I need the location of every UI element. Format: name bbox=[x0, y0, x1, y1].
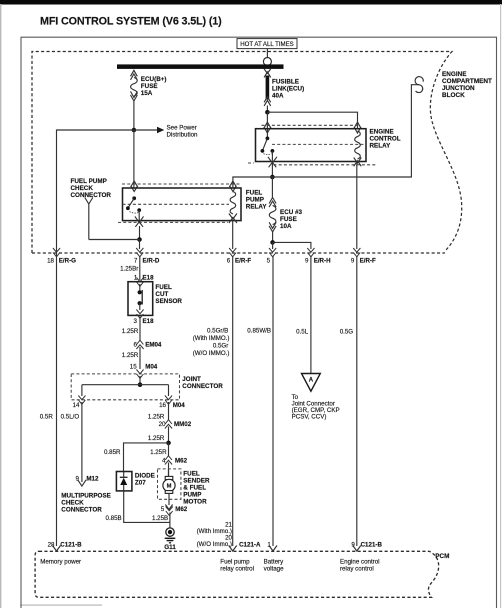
svg-text:Distribution: Distribution bbox=[167, 132, 199, 139]
svg-text:14: 14 bbox=[73, 402, 80, 409]
svg-text:E/R-H: E/R-H bbox=[314, 257, 331, 264]
sensor: fuel cut sensor box bbox=[128, 282, 153, 316]
wire: node right and up to junction block squiggle bbox=[272, 85, 419, 177]
wire: ECR output node down to fuse bbox=[271, 177, 273, 198]
pin 3 E18 at sensor bottom bbox=[136, 310, 143, 319]
pin: relay switch input at rail bbox=[264, 122, 271, 133]
svg-text:JOINT: JOINT bbox=[182, 376, 201, 383]
svg-text:CONTROL: CONTROL bbox=[370, 136, 401, 143]
svg-text:15: 15 bbox=[130, 363, 137, 370]
squiggle: wire continues into junction block bbox=[415, 77, 423, 93]
svg-text:PUMP: PUMP bbox=[183, 492, 201, 499]
svg-text:PCM: PCM bbox=[435, 553, 449, 560]
engine compartment junction block dashed outline bbox=[32, 52, 462, 254]
wire: node down into relay switch bbox=[266, 112, 268, 138]
wire: ECR coil output down to row bbox=[356, 161, 358, 249]
svg-text:ENGINE: ENGINE bbox=[442, 71, 467, 78]
pin 28 C121-B bbox=[53, 546, 61, 552]
svg-text:6: 6 bbox=[227, 257, 231, 264]
pin: fp relay coil input bbox=[229, 181, 236, 192]
svg-text:BLOCK: BLOCK bbox=[442, 92, 465, 99]
HOT AT ALL TIMES box bbox=[237, 39, 297, 49]
fuel pump relay switch bbox=[132, 196, 136, 200]
svg-text:SENSOR: SENSOR bbox=[155, 298, 182, 305]
svg-text:5: 5 bbox=[267, 257, 271, 264]
svg-text:Z07: Z07 bbox=[135, 480, 146, 487]
svg-text:(W/O IMMO.): (W/O IMMO.) bbox=[193, 350, 230, 357]
svg-text:0.5Gr: 0.5Gr bbox=[213, 342, 228, 349]
svg-text:HOT AT ALL TIMES: HOT AT ALL TIMES bbox=[240, 41, 294, 48]
node: power distribution junction bbox=[132, 128, 137, 133]
svg-text:FUSE: FUSE bbox=[280, 216, 297, 223]
svg-text:0.85B: 0.85B bbox=[106, 515, 122, 522]
pin: relay coil input at rail bbox=[354, 122, 361, 133]
svg-text:6: 6 bbox=[134, 342, 138, 349]
wire: node down to row pin 5 bbox=[272, 242, 274, 249]
svg-text:0.5R: 0.5R bbox=[40, 414, 54, 421]
svg-text:1: 1 bbox=[267, 542, 271, 549]
svg-text:COMPARTMENT: COMPARTMENT bbox=[442, 78, 492, 85]
svg-text:CUT: CUT bbox=[155, 291, 168, 298]
svg-text:1.25B: 1.25B bbox=[152, 515, 168, 522]
svg-text:A: A bbox=[309, 378, 314, 384]
node: relay output junction bbox=[270, 175, 275, 180]
dashed rail above fuel pump relay bbox=[122, 183, 242, 185]
pin 7 E/R-D bbox=[136, 248, 143, 257]
svg-text:CHECK: CHECK bbox=[61, 500, 84, 507]
connector 5 M62 bbox=[165, 505, 172, 510]
svg-text:18: 18 bbox=[47, 257, 54, 264]
fuse ECU(B+) 15A symbol bbox=[131, 70, 138, 101]
wire: junction down to fuel pump relay bbox=[133, 130, 135, 188]
svg-text:PCSV, CCV): PCSV, CCV) bbox=[292, 413, 327, 420]
wire: fp switch output to box bottom bbox=[138, 210, 140, 221]
svg-text:40A: 40A bbox=[272, 92, 284, 99]
svg-text:M04: M04 bbox=[173, 402, 186, 409]
wire: node to relay coil branch bbox=[267, 112, 357, 128]
svg-text:C121-B: C121-B bbox=[361, 542, 383, 549]
pin 18 E/R-G bbox=[53, 248, 60, 257]
wire: 9 E/R-H down to triangle A bbox=[310, 256, 312, 374]
wire: branch left to diode bbox=[124, 443, 169, 472]
arrow: see power distribution bbox=[134, 129, 157, 131]
node: diode branch junction bbox=[166, 441, 171, 446]
fuel pump check connector bbox=[85, 198, 93, 240]
wire: node to fuel pump relay coil bbox=[233, 177, 273, 188]
pin 6 E/R-F bbox=[229, 248, 236, 257]
svg-text:E/R-F: E/R-F bbox=[360, 257, 376, 264]
dashed rail inside fuel pump relay bbox=[123, 203, 230, 205]
svg-text:See Power: See Power bbox=[167, 125, 197, 132]
svg-text:M62: M62 bbox=[175, 457, 188, 464]
diode symbol bbox=[120, 476, 128, 478]
svg-text:0.85W/B: 0.85W/B bbox=[247, 327, 271, 334]
fuse ECU#3 10A symbol bbox=[269, 198, 276, 232]
engine control relay switch bbox=[266, 137, 270, 141]
svg-text:LINK(ECU): LINK(ECU) bbox=[272, 85, 304, 92]
PCM dashed box bbox=[35, 551, 439, 597]
svg-text:E18: E18 bbox=[143, 274, 155, 281]
engine control relay coil bbox=[355, 131, 361, 159]
connector ring on bus bar bbox=[263, 58, 271, 66]
svg-text:9: 9 bbox=[351, 542, 355, 549]
connector 4 M62 bbox=[165, 456, 172, 465]
svg-text:ECU #3: ECU #3 bbox=[280, 209, 303, 216]
junction block bottom dashed rail / connector row bbox=[32, 252, 445, 254]
pin 9 E/R-F bbox=[353, 248, 360, 257]
wire: fuse to power junction bbox=[133, 101, 135, 130]
svg-text:FUEL: FUEL bbox=[183, 471, 200, 478]
svg-text:FUEL PUMP: FUEL PUMP bbox=[71, 178, 107, 185]
svg-text:9: 9 bbox=[75, 475, 79, 482]
svg-text:E18: E18 bbox=[143, 318, 155, 325]
svg-text:FUSIBLE: FUSIBLE bbox=[272, 78, 299, 85]
svg-text:M62: M62 bbox=[175, 506, 188, 513]
svg-text:7: 7 bbox=[134, 257, 138, 264]
motor M symbol bbox=[168, 469, 170, 477]
svg-text:ECU(B+): ECU(B+) bbox=[141, 76, 167, 83]
dashed rail below fuel pump relay bbox=[118, 221, 228, 223]
svg-text:ENGINE: ENGINE bbox=[370, 129, 394, 136]
svg-text:MOTOR: MOTOR bbox=[183, 499, 207, 506]
svg-text:Battery: Battery bbox=[264, 559, 285, 566]
ground G11 bbox=[166, 528, 174, 536]
wire: motor to ground bbox=[169, 513, 171, 529]
svg-text:1.25R: 1.25R bbox=[150, 449, 167, 456]
svg-text:CHECK: CHECK bbox=[71, 185, 94, 192]
svg-text:0.5L: 0.5L bbox=[296, 329, 309, 336]
fuel cut sensor internals bbox=[139, 284, 141, 292]
connector 6 EM04 bbox=[136, 340, 143, 349]
dashed rail below engine control relay bbox=[274, 164, 377, 166]
svg-text:MM02: MM02 bbox=[174, 421, 192, 428]
wire: 6 E/R-F down to C121-A bbox=[232, 256, 234, 546]
wire: fp coil down to row bbox=[232, 221, 234, 249]
svg-text:MULTIPURPOSE: MULTIPURPOSE bbox=[61, 493, 111, 500]
svg-text:EM04: EM04 bbox=[145, 342, 162, 349]
svg-text:9: 9 bbox=[305, 257, 309, 264]
wire: 0.5L/O down to M12 bbox=[81, 402, 83, 482]
svg-text:1.25Br: 1.25Br bbox=[120, 266, 138, 273]
svg-text:G11: G11 bbox=[164, 544, 176, 551]
svg-text:1.25R: 1.25R bbox=[148, 414, 165, 421]
wire: 5 down to battery voltage pin 1 bbox=[272, 256, 274, 546]
svg-text:E/R-D: E/R-D bbox=[143, 257, 160, 264]
pin: fp coil bottom bbox=[229, 214, 237, 224]
svg-text:10A: 10A bbox=[280, 223, 292, 230]
svg-text:relay control: relay control bbox=[220, 566, 254, 573]
svg-text:E/R-G: E/R-G bbox=[59, 257, 76, 264]
svg-text:0.85R: 0.85R bbox=[104, 449, 121, 456]
svg-text:1.25R: 1.25R bbox=[122, 352, 139, 359]
svg-text:28: 28 bbox=[48, 542, 55, 549]
pin: fp switch output at box bottom bbox=[135, 216, 144, 226]
arrow: to joint connector triangle A bbox=[302, 374, 321, 392]
wire: 1.25R from pin16 down bbox=[168, 402, 170, 420]
pin: relay switch output at box bottom bbox=[268, 157, 277, 168]
joint connector internal bus bbox=[82, 384, 169, 386]
fuel pump relay coil bbox=[230, 192, 236, 214]
svg-text:1.25R: 1.25R bbox=[122, 328, 139, 335]
pin: coil bottom at box edge bbox=[354, 158, 362, 167]
svg-text:relay control: relay control bbox=[340, 566, 374, 573]
svg-text:Fuel pump: Fuel pump bbox=[220, 559, 250, 566]
svg-text:E/R-F: E/R-F bbox=[235, 257, 251, 264]
pin: fp relay switch input bbox=[131, 181, 138, 192]
svg-text:MFI CONTROL SYSTEM (V6 3.5L) (: MFI CONTROL SYSTEM (V6 3.5L) (1) bbox=[40, 16, 222, 28]
svg-text:Engine control: Engine control bbox=[340, 559, 380, 566]
svg-text:4: 4 bbox=[162, 457, 166, 464]
wire: bus right down to pin 16 bbox=[168, 385, 170, 396]
svg-text:M04: M04 bbox=[145, 363, 158, 370]
svg-text:M12: M12 bbox=[86, 475, 99, 482]
svg-text:20: 20 bbox=[159, 421, 166, 428]
svg-text:16: 16 bbox=[159, 402, 166, 409]
pin 1 battery bbox=[269, 546, 277, 552]
page top black bar bbox=[0, 0, 502, 5]
svg-text:FUEL: FUEL bbox=[155, 284, 172, 291]
node: joint connector bus junction bbox=[138, 382, 143, 387]
svg-text:3: 3 bbox=[134, 318, 138, 325]
fusible link ECU 40A bbox=[264, 69, 271, 106]
wire: switch output to box bottom bbox=[271, 151, 273, 161]
wire: junction left to 0.5R drop bbox=[57, 130, 134, 253]
svg-text:RELAY: RELAY bbox=[370, 143, 392, 150]
wire: fp switch output down to check-connector node bbox=[139, 226, 141, 240]
svg-text:JUNCTION: JUNCTION bbox=[442, 85, 475, 92]
wire: fusible link to node B+ bbox=[266, 106, 268, 113]
wire: bus left down to pin 14 bbox=[81, 385, 83, 396]
wire: hot label to bus bar bbox=[266, 49, 268, 58]
svg-text:C121-A: C121-A bbox=[239, 542, 261, 549]
wire: 9 E/R-F down to engine control relay control bbox=[356, 256, 358, 546]
wire: diode return to ground bus bbox=[124, 491, 170, 523]
svg-text:CONNECTOR: CONNECTOR bbox=[71, 192, 112, 199]
svg-text:CONNECTOR: CONNECTOR bbox=[182, 383, 223, 390]
svg-text:FUSE: FUSE bbox=[141, 83, 158, 90]
svg-text:RELAY: RELAY bbox=[246, 204, 268, 211]
dashed rail inside engine control relay bbox=[272, 143, 364, 145]
svg-text:0.5G: 0.5G bbox=[340, 329, 354, 336]
svg-text:voltage: voltage bbox=[264, 566, 285, 573]
pin 9 E/R-H bbox=[307, 248, 314, 257]
junction block dashed rail above engine control relay bbox=[262, 124, 361, 126]
svg-text:0.5L/O: 0.5L/O bbox=[61, 414, 80, 421]
node: fuse output junction bbox=[270, 240, 275, 245]
wire: ECR switch output down to node bbox=[271, 162, 273, 177]
svg-text:15A: 15A bbox=[141, 90, 153, 97]
pin 9 C121-B bbox=[353, 546, 361, 552]
svg-text:(With IMMO.): (With IMMO.) bbox=[193, 335, 230, 342]
svg-text:M: M bbox=[167, 484, 172, 490]
svg-text:1.25R: 1.25R bbox=[148, 435, 165, 442]
wire: node right to E/R-H drop bbox=[273, 242, 311, 249]
svg-text:0.5Gr/B: 0.5Gr/B bbox=[207, 327, 228, 334]
connector 20 MM02 bbox=[165, 420, 172, 429]
svg-text:5: 5 bbox=[161, 506, 165, 513]
relay: fuel pump relay box bbox=[123, 188, 242, 221]
svg-text:C121-B: C121-B bbox=[60, 542, 82, 549]
svg-text:Memory power: Memory power bbox=[40, 559, 81, 566]
connector 9 M12 terminal bbox=[78, 480, 86, 486]
svg-text:FUEL: FUEL bbox=[246, 190, 263, 197]
svg-text:(W/O Immo.): (W/O Immo.) bbox=[197, 541, 232, 548]
op: engine control relay box U-ECR bbox=[256, 129, 367, 162]
bus bar (thick) bbox=[117, 64, 284, 69]
svg-text:9: 9 bbox=[351, 257, 355, 264]
scan edge artifacts bbox=[0, 4, 1, 608]
wire: fuse bottom to node bbox=[272, 232, 274, 243]
wire: junction down to motor pin 4 bbox=[168, 443, 170, 456]
pin 5 bbox=[269, 248, 276, 257]
svg-text:DIODE: DIODE bbox=[135, 473, 155, 480]
node: B+ junction below fusible link bbox=[265, 110, 270, 115]
wire: node down to row bbox=[139, 240, 141, 250]
svg-text:& FUEL: & FUEL bbox=[183, 485, 206, 492]
svg-text:CONNECTOR: CONNECTOR bbox=[61, 507, 102, 514]
svg-text:PUMP: PUMP bbox=[246, 197, 264, 204]
node: check connector junction bbox=[137, 237, 142, 242]
svg-text:SENDER: SENDER bbox=[183, 478, 210, 485]
